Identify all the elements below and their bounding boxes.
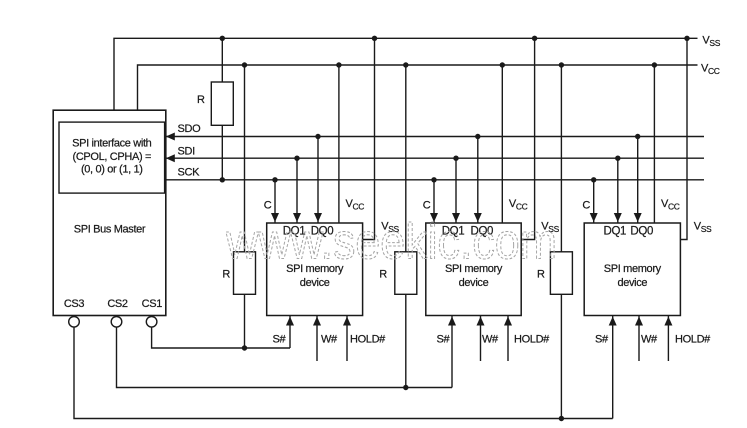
svg-text:www.seekic.com: www.seekic.com [225, 214, 557, 270]
svg-text:device: device [617, 277, 647, 289]
label SPI memory device U3 [604, 263, 662, 289]
wire VCC supply drop to device U1 [338, 65, 340, 223]
wire DQ0 tap from SDO for device U1 [317, 137, 319, 224]
arrow into master on SDO [166, 133, 175, 141]
svg-text:S#: S# [273, 334, 287, 346]
node junction on chip-select line at resistor R4 [559, 416, 564, 421]
wire W# stub of device U3 [638, 316, 640, 362]
svg-text:SPI memory: SPI memory [604, 263, 662, 275]
wire W# stub of device U2 [480, 316, 482, 362]
svg-text:SDO: SDO [178, 123, 202, 135]
svg-text:R: R [222, 268, 230, 280]
svg-text:SCK: SCK [178, 166, 201, 178]
node junction on VSS rail for device U1 [372, 36, 377, 41]
arrow into W# pin of device U1 [313, 317, 321, 326]
svg-text:W#: W# [482, 334, 499, 346]
arrow into HOLD# pin of device U1 [343, 317, 351, 326]
arrow into S# pin of device U2 [448, 317, 456, 326]
wire VCC supply drop to device U3 [653, 65, 655, 223]
arrow into W# pin of device U2 [477, 317, 485, 326]
arrow into DQ1 pin of device U2 [452, 213, 460, 222]
node junction on SCK for device U1 [272, 177, 277, 182]
node junction on VCC rail for device U1 [336, 62, 341, 67]
pin circle CS3 [69, 317, 80, 328]
svg-text:device: device [459, 277, 489, 289]
wire CS2 to S# of device U2 [117, 327, 453, 387]
arrow into DQ1 pin of device U1 [293, 213, 301, 222]
SPI memory device U2 box [426, 223, 521, 316]
svg-text:W#: W# [321, 334, 338, 346]
node junction on VSS rail at resistor R (SCK) [220, 36, 225, 41]
node junction on VSS rail for device U2 [532, 36, 537, 41]
node junction on SDI for device U2 [453, 156, 458, 161]
wire S# riser into device U1 [289, 316, 291, 349]
wire CS1 to S# of device U1 [152, 327, 290, 348]
node junction on SDO for device U2 [475, 134, 480, 139]
node junction on VCC rail at resistor R2 [242, 62, 247, 67]
node junction on SDI for device U3 [615, 156, 620, 161]
resistor R2 (chip-select pull-up) [234, 252, 256, 294]
arrow into DQ1 pin of device U3 [614, 213, 622, 222]
wire VCC rail from master top to top-right [138, 65, 698, 110]
resistor R4 (chip-select pull-up) [550, 252, 572, 294]
svg-text:S#: S# [437, 334, 451, 346]
node junction on chip-select line at resistor R2 [242, 345, 247, 350]
arrow into C pin of device U1 [271, 213, 279, 222]
wire C clock tap for device U3 [593, 180, 595, 223]
wire from resistor R3 down to chip-select line [405, 294, 407, 387]
SPI interface inner box [59, 122, 165, 193]
svg-text:R: R [197, 94, 205, 106]
wire DQ1 tap from SDI for device U2 [455, 158, 457, 223]
arrow into S# pin of device U3 [609, 317, 617, 326]
wire SDO bus line [166, 136, 704, 138]
wire DQ1 tap from SDI for device U3 [617, 158, 619, 223]
SPI memory device U3 box [584, 223, 680, 316]
wire CS3 to S# of device U3 [74, 327, 613, 418]
wire C clock tap for device U2 [433, 180, 435, 223]
svg-text:S#: S# [595, 334, 609, 346]
wire DQ0 tap from SDO for device U3 [637, 137, 639, 224]
wire from VSS rail down to resistor R (SCK) [221, 38, 223, 82]
svg-text:DQ0: DQ0 [630, 226, 653, 238]
svg-text:C: C [582, 200, 590, 212]
arrow into DQ0 pin of device U2 [474, 213, 482, 222]
svg-text:device: device [300, 277, 330, 289]
arrow into W# pin of device U3 [635, 317, 643, 326]
wire HOLD# stub of device U3 [667, 316, 669, 362]
label SPI interface with (CPOL, CPHA) = (0, 0) or (1, 1) [72, 138, 152, 176]
svg-text:HOLD#: HOLD# [514, 334, 550, 346]
node junction on SCK for device U3 [591, 177, 596, 182]
SPI memory device U1 box [267, 223, 363, 316]
wire VSS rail from master top to top-right [114, 38, 698, 110]
wire SCK bus line [166, 179, 704, 181]
arrow into master on SDI [166, 154, 175, 162]
node junction on SDO for device U1 [315, 134, 320, 139]
wire DQ1 tap from SDI for device U1 [296, 158, 298, 223]
node junction on chip-select line at resistor R3 [403, 385, 408, 390]
SPI bus master block outline [53, 110, 166, 315]
label SPI memory device U1 [286, 263, 344, 289]
wire VCC supply drop to device U2 [501, 65, 503, 223]
wire S# riser into device U3 [612, 316, 614, 419]
arrow into HOLD# pin of device U3 [664, 317, 672, 326]
wire from resistor R2 down to chip-select line [244, 294, 246, 348]
svg-text:W#: W# [641, 334, 658, 346]
svg-text:(0, 0) or (1, 1): (0, 0) or (1, 1) [81, 164, 143, 176]
svg-text:HOLD#: HOLD# [675, 334, 711, 346]
wire HOLD# stub of device U2 [507, 316, 509, 362]
arrow into DQ0 pin of device U1 [314, 213, 322, 222]
arrow into HOLD# pin of device U2 [504, 317, 512, 326]
node junction on VCC rail for device U2 [500, 62, 505, 67]
svg-text:R: R [537, 268, 545, 280]
wire from resistor R (SCK) down to SCK line [221, 125, 223, 180]
label SPI memory device U2 [445, 263, 503, 289]
wire VSS supply drop to device U1 [363, 38, 375, 239]
wire W# stub of device U1 [316, 316, 318, 362]
node junction on SCK at resistor [220, 177, 225, 182]
resistor R3 (chip-select pull-up) [395, 252, 417, 294]
wire S# riser into device U2 [451, 316, 453, 388]
svg-text:DQ1: DQ1 [603, 226, 626, 238]
resistor R (SCK pull-down) [211, 82, 233, 125]
wire from VCC rail down to resistor R3 [405, 65, 407, 252]
arrow into C pin of device U2 [430, 213, 438, 222]
arrow into C pin of device U3 [590, 213, 598, 222]
wire VSS supply drop to device U3 [680, 38, 687, 239]
wire from resistor R4 down to chip-select line [560, 294, 562, 418]
wire from VCC rail down to resistor R4 [560, 65, 562, 252]
node VSS rail end junction [684, 36, 689, 41]
pin circle CS2 [111, 317, 122, 328]
node junction on SDO for device U3 [635, 134, 640, 139]
svg-text:SPI Bus Master: SPI Bus Master [74, 224, 146, 236]
svg-text:C: C [423, 200, 431, 212]
svg-text:SPI interface with: SPI interface with [72, 138, 152, 150]
svg-text:C: C [264, 200, 272, 212]
node junction on VCC rail at resistor R3 [403, 62, 408, 67]
node junction on VCC rail at resistor R4 [559, 62, 564, 67]
arrow into S# pin of device U1 [286, 317, 294, 326]
wire DQ0 tap from SDO for device U2 [477, 137, 479, 224]
wire HOLD# stub of device U1 [346, 316, 348, 362]
svg-text:HOLD#: HOLD# [350, 334, 386, 346]
wire from VCC rail down to resistor R2 [244, 65, 246, 252]
svg-text:CS2: CS2 [107, 298, 128, 310]
node junction on VCC rail for device U3 [652, 62, 657, 67]
svg-text:(CPOL, CPHA) =: (CPOL, CPHA) = [73, 151, 152, 163]
svg-text:R: R [379, 268, 387, 280]
node junction on SCK for device U2 [431, 177, 436, 182]
node junction on SDI for device U1 [294, 156, 299, 161]
wire VSS supply drop to device U2 [521, 38, 534, 239]
svg-text:SDI: SDI [178, 145, 196, 157]
svg-text:CS1: CS1 [142, 298, 163, 310]
pin circle CS1 [146, 317, 157, 328]
wire C clock tap for device U1 [274, 180, 276, 223]
arrow into DQ0 pin of device U3 [634, 213, 642, 222]
svg-text:CS3: CS3 [64, 298, 85, 310]
wire SDI bus line [166, 157, 704, 159]
